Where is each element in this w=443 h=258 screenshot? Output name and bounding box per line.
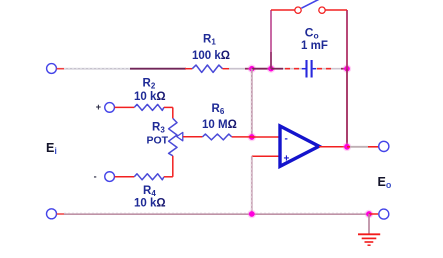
wire cap-branch right vertical [346,10,348,69]
wire op-amp output [319,146,347,148]
wire ground tap to terminal [369,213,378,215]
terminal minus input [94,172,115,182]
label Ei [46,141,57,156]
wire output to terminal [347,146,379,148]
label Eo [378,175,392,190]
wire feedback vertical to inverting input [250,69,253,137]
node junction C (cap branch right) [343,65,351,73]
svg-text:+: + [96,102,101,112]
wire R1 to feedback node [229,68,252,70]
svg-text:+: + [284,154,290,165]
node junction B (cap branch left) [267,65,275,73]
node junction A (top feedback tap) [248,65,256,73]
svg-text:10 MΩ: 10 MΩ [202,119,237,131]
resistor R4 [115,174,173,210]
wire feedback right vertical down to output node [346,69,348,147]
resistor R1 [185,34,230,73]
ground symbol [358,214,380,245]
wire inverting input [252,136,280,138]
svg-text:POT: POT [147,135,169,147]
wire cap-branch left vertical [270,10,272,69]
svg-text:1 mF: 1 mF [301,40,328,52]
node junction D (inverting input) [248,133,257,142]
node junction E (output) [343,143,352,152]
wire pot wiper to R6 [183,136,203,138]
svg-text:-: - [94,172,97,182]
capacitor C0 [271,26,347,78]
resistor R6 [202,103,252,140]
svg-text:100 kΩ: 100 kΩ [192,50,230,62]
wire bottom rail [57,213,369,214]
wire non-inverting to ground rail vertical [250,156,253,214]
wire node A to node B [252,68,271,70]
svg-text:-: - [285,134,288,145]
potentiometer R3 POT [147,118,183,155]
wire pot bottom to R4 corner [172,156,174,177]
terminal output bottom-right [379,209,389,219]
svg-text:10 kΩ: 10 kΩ [134,91,166,103]
terminal output Eo [379,141,389,151]
switch S1 [271,0,347,13]
op-amp U1 [280,126,319,166]
node junction F (ground rail tap) [248,210,257,219]
wire top input run [57,67,186,69]
svg-text:10 kΩ: 10 kΩ [134,198,166,210]
resistor R2 [115,78,173,111]
wire non-inverting input [252,155,280,157]
wire R2 corner down to pot [172,107,174,118]
node junction G (ground) [365,210,374,219]
terminal plus input [96,102,115,112]
terminal input top-left [47,64,57,74]
terminal input bottom-left [47,209,57,219]
